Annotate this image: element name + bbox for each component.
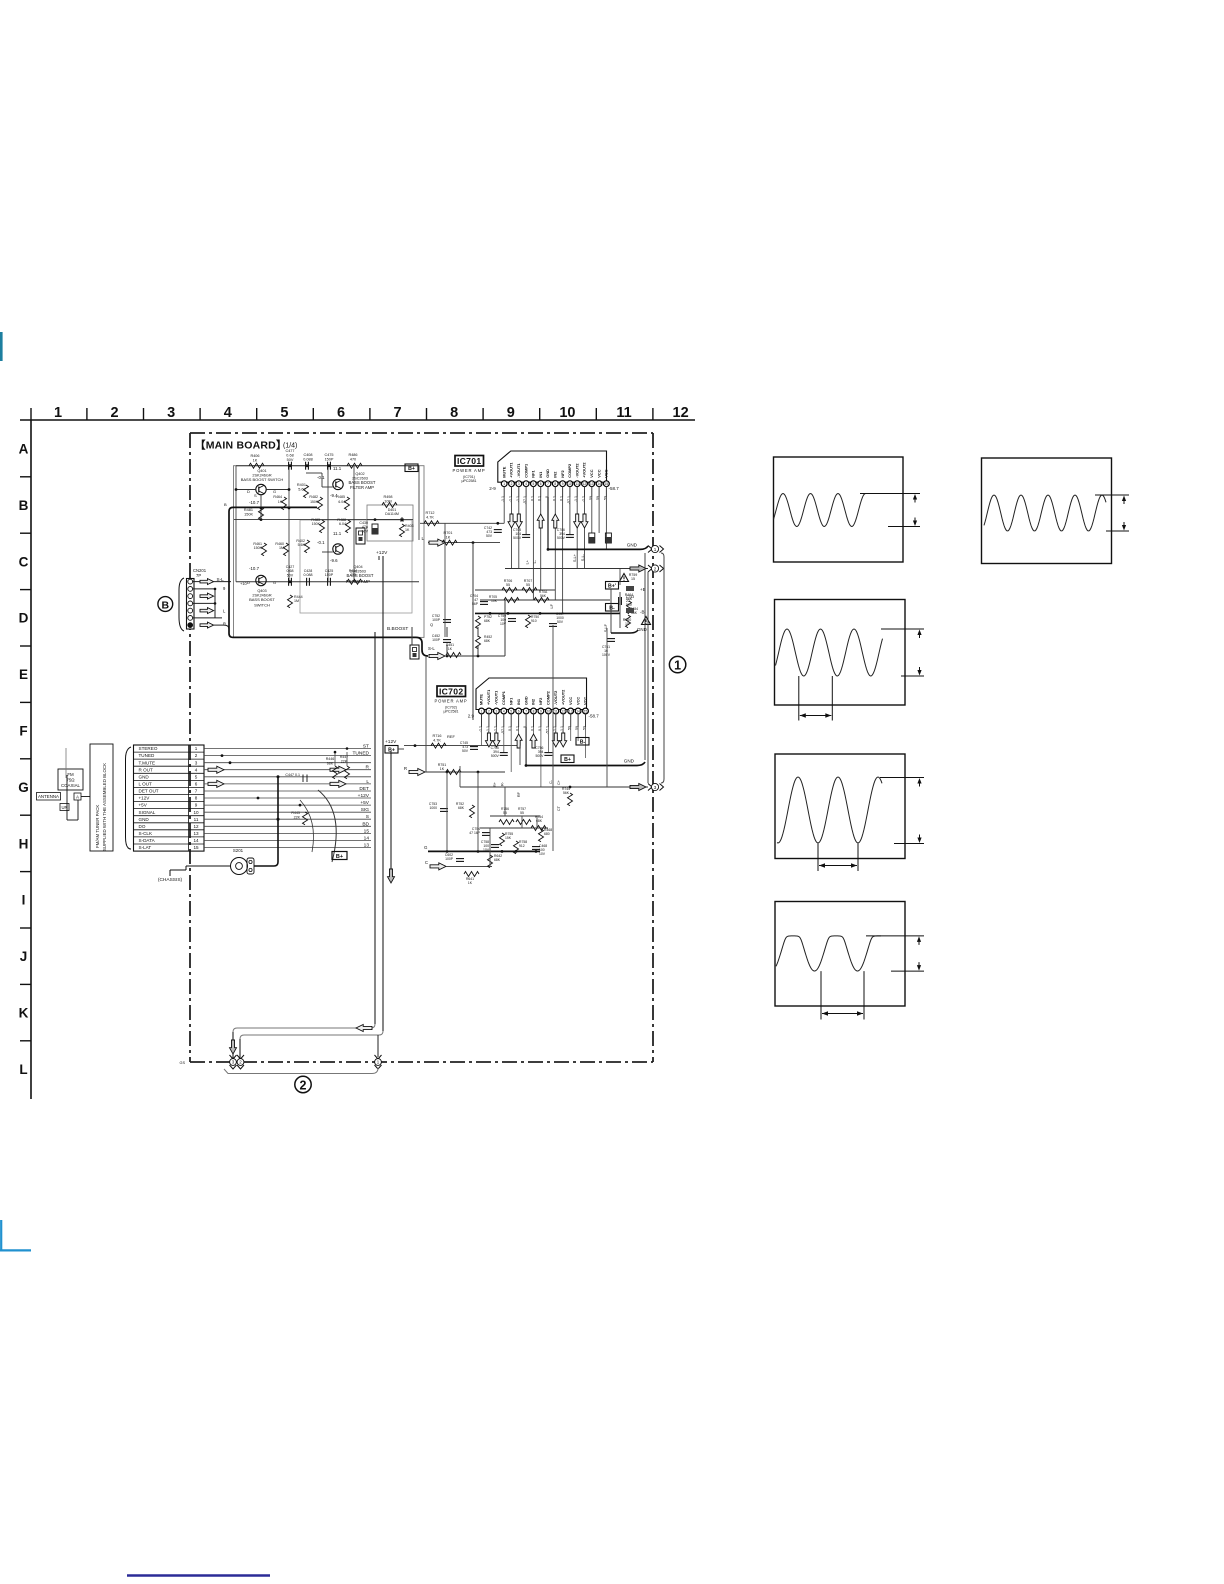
svg-text:L: L	[19, 1062, 27, 1077]
svg-text:R481: R481	[244, 508, 253, 512]
svg-text:1M: 1M	[279, 546, 284, 550]
svg-text:500V: 500V	[491, 754, 500, 758]
svg-text:100P: 100P	[432, 618, 441, 622]
svg-text:K: K	[19, 1006, 29, 1021]
svg-text:DA114M: DA114M	[385, 512, 399, 516]
svg-text:8: 8	[533, 710, 535, 714]
svg-text:2: 2	[654, 566, 657, 571]
svg-text:R712: R712	[425, 511, 434, 515]
svg-text:R OUT: R OUT	[139, 767, 153, 772]
svg-text:C: C	[19, 554, 29, 569]
svg-text:500V: 500V	[535, 754, 544, 758]
svg-text:-0.1: -0.1	[317, 540, 325, 545]
svg-text:µPC2581: µPC2581	[443, 710, 458, 714]
svg-text:15K: 15K	[505, 836, 512, 840]
svg-text:C475: C475	[324, 453, 333, 457]
svg-text:150K: 150K	[310, 500, 319, 504]
svg-text:5: 5	[280, 405, 288, 421]
svg-text:T.MUTE: T.MUTE	[139, 760, 156, 765]
svg-text:COMP2: COMP2	[546, 690, 551, 705]
svg-text:-0.1: -0.1	[317, 475, 325, 480]
svg-text:11: 11	[554, 710, 558, 714]
svg-text:-VOUT2: -VOUT2	[574, 463, 579, 478]
svg-text:56K: 56K	[540, 594, 547, 598]
svg-text:-58.7: -58.7	[589, 714, 600, 719]
svg-text:G: G	[273, 580, 276, 585]
svg-text:+12V: +12V	[385, 739, 397, 745]
svg-text:50V: 50V	[626, 603, 633, 607]
svg-text:9: 9	[562, 482, 564, 486]
svg-text:680: 680	[544, 832, 550, 836]
svg-text:47 16P: 47 16P	[469, 831, 480, 835]
svg-text:R: R	[223, 622, 226, 627]
svg-text:4: 4	[525, 482, 527, 486]
svg-text:L: L	[421, 536, 424, 541]
svg-text:R486: R486	[348, 453, 357, 457]
svg-text:GND: GND	[545, 469, 550, 478]
svg-text:A: A	[76, 795, 79, 800]
svg-text:MUTE: MUTE	[501, 466, 506, 477]
svg-text:REF: REF	[447, 734, 456, 739]
svg-text:GND: GND	[139, 817, 150, 822]
svg-text:SUPPLIED WITH THE ASSEMBLED BL: SUPPLIED WITH THE ASSEMBLED BLOCK	[102, 763, 107, 851]
svg-text:2: 2	[195, 753, 198, 758]
svg-text:FM: FM	[67, 772, 74, 777]
svg-text:10V: 10V	[539, 852, 546, 856]
svg-text:IN1: IN1	[516, 698, 521, 705]
svg-text:68K: 68K	[484, 619, 491, 623]
svg-text:B+: B+	[564, 757, 571, 763]
svg-text:56P: 56P	[472, 602, 479, 606]
svg-text:8: 8	[554, 482, 556, 486]
svg-text:11: 11	[616, 405, 631, 421]
svg-text:500V: 500V	[557, 536, 566, 540]
svg-text:0.088: 0.088	[303, 457, 313, 461]
svg-text:10M: 10M	[384, 499, 391, 503]
svg-text:COMP1: COMP1	[523, 463, 528, 478]
svg-text:A: A	[19, 442, 29, 457]
svg-text:NF1: NF1	[508, 697, 513, 705]
svg-text:(CHASSIS): (CHASSIS)	[158, 877, 183, 883]
svg-text:S201: S201	[233, 848, 244, 853]
svg-text:B: B	[162, 599, 170, 611]
svg-text:R716: R716	[432, 734, 441, 738]
svg-text:R445: R445	[291, 811, 300, 815]
svg-text:R464: R464	[273, 495, 282, 499]
svg-text:B.BOOST: B.BOOST	[387, 626, 408, 632]
svg-text:+12V: +12V	[358, 793, 370, 799]
svg-text:50V: 50V	[462, 749, 469, 753]
svg-text:1K: 1K	[405, 528, 410, 532]
svg-text:IN2: IN2	[553, 471, 558, 478]
svg-text:6: 6	[195, 782, 198, 787]
svg-text:C408: C408	[303, 453, 312, 457]
svg-text:GND: GND	[624, 759, 635, 764]
svg-text:4: 4	[224, 405, 232, 421]
svg-text:Q403: Q403	[257, 589, 266, 593]
svg-text:4: 4	[195, 767, 198, 772]
svg-text:B: B	[224, 502, 227, 507]
svg-text:-B: -B	[640, 610, 644, 615]
svg-text:+5V: +5V	[360, 800, 369, 806]
svg-text:15: 15	[631, 577, 635, 581]
svg-text:1K: 1K	[440, 767, 445, 771]
svg-text:+VOUT1: +VOUT1	[509, 462, 514, 478]
svg-text:R498: R498	[383, 495, 392, 499]
svg-text:50V: 50V	[557, 620, 564, 624]
svg-text:12: 12	[193, 824, 199, 829]
svg-text:NF2: NF2	[560, 470, 565, 478]
svg-text:500V: 500V	[513, 536, 522, 540]
svg-text:50V: 50V	[287, 573, 294, 577]
svg-text:COAXIAL: COAXIAL	[61, 783, 81, 788]
svg-text:13: 13	[590, 482, 594, 486]
svg-text:COMP1: COMP1	[501, 690, 506, 705]
svg-text:VCC: VCC	[583, 697, 588, 705]
svg-text:10V: 10V	[500, 622, 507, 626]
svg-text:14: 14	[597, 482, 601, 486]
svg-text:6: 6	[540, 482, 542, 486]
svg-text:470: 470	[350, 457, 356, 461]
svg-text:150K: 150K	[244, 512, 253, 516]
svg-text:3: 3	[496, 710, 498, 714]
svg-text:F: F	[19, 724, 27, 739]
svg-text:6: 6	[337, 405, 345, 421]
svg-text:11: 11	[576, 482, 580, 486]
svg-text:GND: GND	[627, 543, 638, 548]
svg-text:1: 1	[654, 547, 657, 552]
svg-text:150P: 150P	[325, 457, 334, 461]
svg-text:7: 7	[195, 789, 198, 794]
svg-text:R: R	[404, 766, 407, 771]
svg-text:1K: 1K	[253, 458, 258, 462]
svg-text:+12V: +12V	[139, 796, 151, 801]
svg-text:DO: DO	[139, 824, 146, 829]
svg-text:10: 10	[547, 710, 551, 714]
svg-text:B+: B+	[336, 854, 343, 860]
svg-text:B+: B+	[408, 466, 415, 472]
svg-text:G: G	[18, 780, 29, 795]
svg-text:+12V: +12V	[376, 550, 388, 556]
svg-text:100P: 100P	[432, 638, 441, 642]
svg-text:1M: 1M	[294, 599, 299, 603]
svg-text:+5V: +5V	[139, 803, 148, 808]
svg-text:7P: 7P	[196, 573, 201, 578]
svg-text:55: 55	[506, 583, 510, 587]
svg-text:15: 15	[584, 710, 588, 714]
svg-text:POWER AMP: POWER AMP	[452, 468, 485, 473]
svg-text:-58.7: -58.7	[609, 486, 620, 491]
svg-text:12: 12	[561, 710, 565, 714]
svg-text:-VOUT2: -VOUT2	[553, 690, 558, 705]
svg-text:C477: C477	[285, 449, 294, 453]
svg-text:G: G	[424, 845, 428, 850]
svg-text:S: S	[366, 814, 369, 820]
svg-text:L OUT: L OUT	[139, 782, 153, 787]
svg-text:VCC: VCC	[568, 697, 573, 705]
svg-text:GND: GND	[139, 774, 150, 779]
svg-text:-10.7: -10.7	[249, 566, 260, 571]
svg-text:FM/AM TUNER PACK: FM/AM TUNER PACK	[95, 805, 100, 848]
svg-text:TUNED: TUNED	[352, 751, 369, 757]
svg-text:S-LAT: S-LAT	[139, 845, 152, 850]
svg-text:912: 912	[519, 844, 525, 848]
svg-text:2: 2	[111, 405, 119, 421]
svg-text:55: 55	[526, 583, 530, 587]
svg-text:100V: 100V	[602, 653, 611, 657]
svg-text:68K: 68K	[458, 806, 465, 810]
svg-text:1K: 1K	[278, 500, 283, 504]
svg-text:C447 0.1: C447 0.1	[285, 773, 300, 777]
svg-text:BD: BD	[362, 821, 369, 827]
svg-text:Q: Q	[430, 622, 433, 627]
svg-text:E: E	[19, 667, 28, 682]
svg-text:IC702: IC702	[439, 687, 463, 697]
svg-text:7: 7	[394, 405, 402, 421]
svg-text:15: 15	[364, 828, 370, 834]
svg-text:ANTENNA: ANTENNA	[38, 794, 59, 799]
svg-text:FILTER AMP: FILTER AMP	[350, 485, 374, 490]
svg-text:B+': B+'	[608, 583, 616, 589]
svg-text:R: R	[366, 765, 370, 771]
svg-text:IN2: IN2	[531, 698, 536, 705]
svg-text:SIGNAL: SIGNAL	[139, 810, 156, 815]
svg-text:13: 13	[193, 831, 199, 836]
svg-text:0.68: 0.68	[286, 453, 293, 457]
svg-text:R446: R446	[326, 757, 335, 761]
svg-text:9: 9	[507, 405, 515, 421]
svg-text:【MAIN BOARD】: 【MAIN BOARD】	[195, 439, 287, 452]
svg-text:IN1: IN1	[538, 471, 543, 478]
svg-text:B+: B+	[388, 747, 395, 753]
svg-text:COMP2: COMP2	[567, 463, 572, 478]
svg-text:H: H	[19, 836, 29, 851]
svg-text:15: 15	[625, 622, 629, 626]
svg-text:1K: 1K	[446, 535, 451, 539]
svg-text:Q401: Q401	[257, 469, 266, 473]
svg-text:+VOUT1: +VOUT1	[486, 689, 491, 705]
svg-text:Q402: Q402	[355, 472, 364, 476]
svg-text:R485: R485	[336, 495, 345, 499]
svg-text:68K: 68K	[327, 762, 334, 766]
svg-text:2: 2	[488, 710, 490, 714]
svg-text:11.1: 11.1	[333, 466, 342, 471]
svg-text:S-L+: S-L+	[573, 553, 577, 562]
svg-text:-57.1: -57.1	[545, 726, 549, 734]
svg-text:150K: 150K	[254, 546, 263, 550]
svg-text:L: L	[366, 779, 369, 785]
svg-text:3: 3	[518, 482, 520, 486]
svg-text:RF: RF	[517, 791, 521, 797]
svg-text:1K: 1K	[468, 881, 473, 885]
svg-text:4.7K: 4.7K	[426, 515, 434, 519]
svg-text:S-L-: S-L-	[581, 553, 585, 561]
svg-text:150P: 150P	[325, 573, 334, 577]
svg-text:J: J	[20, 949, 28, 964]
svg-text:D: D	[247, 580, 250, 585]
svg-text:50V: 50V	[486, 534, 493, 538]
svg-text:100P: 100P	[445, 857, 454, 861]
svg-text:S-L: S-L	[428, 646, 435, 651]
svg-text:11.1: 11.1	[333, 531, 342, 536]
svg-text:-9.6: -9.6	[330, 558, 338, 563]
svg-text:1: 1	[195, 746, 198, 751]
svg-text:VCC: VCC	[589, 469, 594, 477]
svg-text:+VOUT2: +VOUT2	[582, 462, 587, 478]
svg-text:5: 5	[510, 710, 512, 714]
svg-text:5: 5	[195, 774, 198, 779]
svg-text:D: D	[19, 611, 29, 626]
svg-text:14: 14	[576, 710, 580, 714]
svg-text:0.088: 0.088	[304, 573, 313, 577]
svg-text:+VOUT2: +VOUT2	[560, 689, 565, 705]
svg-text:3: 3	[654, 785, 657, 790]
svg-text:1: 1	[481, 710, 483, 714]
svg-text:8: 8	[450, 405, 458, 421]
svg-text:MUTE: MUTE	[479, 694, 484, 705]
svg-text:-VOUT1: -VOUT1	[494, 690, 499, 705]
svg-text:1: 1	[674, 658, 681, 672]
svg-text:150K: 150K	[312, 522, 321, 526]
svg-text:13: 13	[364, 843, 370, 849]
svg-text:5.6K: 5.6K	[298, 487, 306, 491]
svg-text:1: 1	[503, 482, 505, 486]
svg-text:10: 10	[559, 405, 575, 421]
svg-text:1000: 1000	[429, 806, 437, 810]
svg-text:S-DATA: S-DATA	[139, 838, 156, 843]
svg-text:VCC: VCC	[604, 469, 609, 477]
svg-text:55: 55	[520, 811, 524, 815]
svg-text:6.04: 6.04	[339, 522, 346, 526]
svg-text:9: 9	[540, 710, 542, 714]
svg-text:R482: R482	[309, 495, 318, 499]
svg-text:2-9: 2-9	[489, 486, 496, 491]
svg-text:µPC2581: µPC2581	[461, 479, 476, 483]
svg-text:S-CLK: S-CLK	[139, 831, 153, 836]
svg-text:56K: 56K	[563, 791, 570, 795]
svg-text:IC701: IC701	[457, 456, 481, 466]
svg-text:6.04: 6.04	[338, 500, 345, 504]
svg-text:68K: 68K	[494, 858, 501, 862]
svg-text:B-: B-	[609, 605, 615, 611]
svg-text:7: 7	[547, 482, 549, 486]
svg-text:NF1: NF1	[531, 470, 536, 478]
svg-text:10: 10	[568, 482, 572, 486]
svg-text:6: 6	[518, 710, 520, 714]
svg-text:3: 3	[167, 405, 175, 421]
svg-text:3: 3	[195, 760, 198, 765]
svg-text:2: 2	[300, 1078, 307, 1092]
svg-text:10K: 10K	[491, 599, 498, 603]
svg-text:BASS BOOST: BASS BOOST	[249, 597, 275, 602]
svg-text:75Ω: 75Ω	[66, 778, 75, 783]
svg-text:LF: LF	[550, 603, 554, 608]
svg-text:C: C	[425, 860, 428, 865]
svg-text:8: 8	[195, 796, 198, 801]
svg-text:-10.7: -10.7	[249, 500, 260, 505]
svg-text:4.7K: 4.7K	[433, 738, 441, 742]
svg-text:12: 12	[583, 482, 587, 486]
svg-text:POWER AMP: POWER AMP	[434, 699, 467, 704]
svg-text:7: 7	[525, 710, 527, 714]
svg-text:C+: C+	[557, 779, 561, 785]
svg-text:VCC: VCC	[596, 469, 601, 477]
svg-text:I: I	[22, 893, 26, 908]
svg-text:R+: R+	[493, 781, 497, 787]
svg-text:S: S	[254, 493, 257, 498]
svg-text:12: 12	[673, 405, 689, 421]
svg-text:DET: DET	[359, 786, 369, 792]
svg-text:SIG: SIG	[361, 807, 370, 813]
svg-text:+10: +10	[240, 581, 248, 586]
svg-text:22K: 22K	[294, 816, 301, 820]
svg-text:1: 1	[54, 405, 62, 421]
svg-text:BASS BOOST SWITCH: BASS BOOST SWITCH	[241, 477, 284, 482]
svg-text:NF2: NF2	[538, 697, 543, 705]
svg-text:STEREO: STEREO	[139, 746, 158, 751]
svg-text:CT: CT	[557, 805, 561, 811]
svg-text:VCC: VCC	[575, 697, 580, 705]
svg-text:B: B	[19, 498, 29, 513]
svg-text:4: 4	[503, 710, 505, 714]
svg-text:ST: ST	[363, 744, 369, 750]
svg-text:R401: R401	[297, 483, 306, 487]
svg-text:13: 13	[569, 710, 573, 714]
svg-text:1K: 1K	[448, 647, 453, 651]
svg-text:2: 2	[511, 482, 513, 486]
svg-text:DET OUT: DET OUT	[139, 789, 159, 794]
svg-text:15: 15	[193, 845, 199, 850]
svg-text:50V: 50V	[287, 458, 294, 462]
svg-text:5: 5	[533, 482, 535, 486]
svg-text:B-: B-	[580, 739, 586, 745]
svg-text:14: 14	[193, 838, 199, 843]
svg-text:11: 11	[194, 817, 199, 822]
svg-text:68K: 68K	[484, 639, 491, 643]
svg-text:SWITCH: SWITCH	[254, 603, 270, 608]
svg-text:GND: GND	[523, 696, 528, 705]
svg-text:-VOUT1: -VOUT1	[516, 463, 521, 478]
svg-text:910: 910	[531, 619, 537, 623]
svg-text:475: 475	[350, 573, 356, 577]
svg-text:GS: GS	[180, 1061, 186, 1065]
svg-text:14: 14	[364, 835, 370, 841]
svg-text:10: 10	[193, 810, 199, 815]
svg-text:9: 9	[195, 803, 198, 808]
svg-text:TUNED: TUNED	[139, 753, 156, 758]
svg-text:R406: R406	[250, 454, 259, 458]
